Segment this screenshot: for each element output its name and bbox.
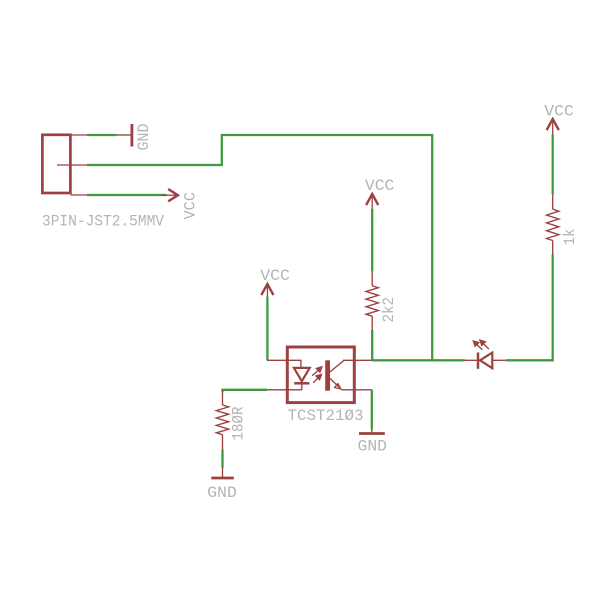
- opto pin emitter (bottom-right): [342, 389, 372, 391]
- wire: VCC to R1: [552, 134, 554, 194]
- connector pin 3 (VCC): [71, 194, 89, 196]
- connector pin 2 (middle): [57, 164, 88, 166]
- GND symbol below opto: bar: [359, 432, 385, 435]
- optocoupler OK1 box TCST2103: [287, 347, 354, 403]
- VCC supply arrow above optocoupler: [262, 284, 273, 294]
- svg-text:GND: GND: [207, 484, 237, 502]
- VCC supply arrow above 2k2: [367, 194, 378, 204]
- opto light arrows: [312, 367, 322, 383]
- resistor R2 2k2: [366, 271, 378, 330]
- svg-text:1k: 1k: [561, 229, 579, 246]
- connector pin 1 (GND): [71, 134, 89, 136]
- svg-text:2k2: 2k2: [380, 297, 398, 323]
- wire: R1 down to LED row: [506, 255, 553, 361]
- svg-text:VCC: VCC: [544, 102, 574, 120]
- wire: pin1 to GND: [87, 134, 117, 136]
- opto pin anode (top-left): [267, 360, 301, 368]
- wire: cathode to 180R corner: [223, 390, 268, 392]
- wire: pin2 net up and across to right: [87, 135, 432, 360]
- opto phototransistor: [325, 360, 343, 390]
- GND symbol below 180R: bar: [211, 477, 234, 480]
- wire: VCC to opto pin 1: [266, 297, 268, 361]
- svg-text:3PIN-JST2.5MMV: 3PIN-JST2.5MMV: [42, 213, 164, 231]
- VCC supply arrow (right-pointing): [169, 190, 178, 201]
- opto pin cathode (bottom-left): [267, 389, 302, 391]
- GND symbol SUPPLY1 (rotated) pin stub: [117, 134, 131, 136]
- wire: collector junction row: [372, 359, 465, 361]
- svg-text:VCC: VCC: [181, 192, 199, 220]
- VCC supply arrow top right: [547, 119, 558, 129]
- resistor R3 180R: [216, 391, 228, 449]
- connector J1 body 3PIN-JST2.5MMV: [42, 135, 70, 193]
- svg-text:TCST21Ø3: TCST21Ø3: [288, 407, 364, 425]
- opto internal LED: [294, 368, 310, 390]
- GND symbol below 180R: stub: [222, 468, 224, 478]
- resistor R1 1k: [547, 194, 559, 254]
- GND symbol bar: [130, 124, 133, 147]
- svg-text:VCC: VCC: [365, 177, 395, 195]
- wire: emitter to GND: [371, 390, 373, 430]
- opto pin collector (top-right): [343, 359, 372, 361]
- wire: pin3 to VCC arrow: [87, 194, 167, 196]
- wire: 180R to GND: [221, 450, 223, 468]
- resistor R2 2k2 wires: [371, 209, 373, 271]
- svg-text:GND: GND: [135, 124, 153, 151]
- svg-text:GND: GND: [358, 438, 388, 456]
- GND symbol below opto: stub: [371, 429, 373, 433]
- LED D1: [464, 352, 506, 368]
- svg-text:VCC: VCC: [260, 267, 290, 285]
- LED D1 light arrows: [473, 340, 489, 350]
- svg-text:18ØR: 18ØR: [229, 406, 247, 440]
